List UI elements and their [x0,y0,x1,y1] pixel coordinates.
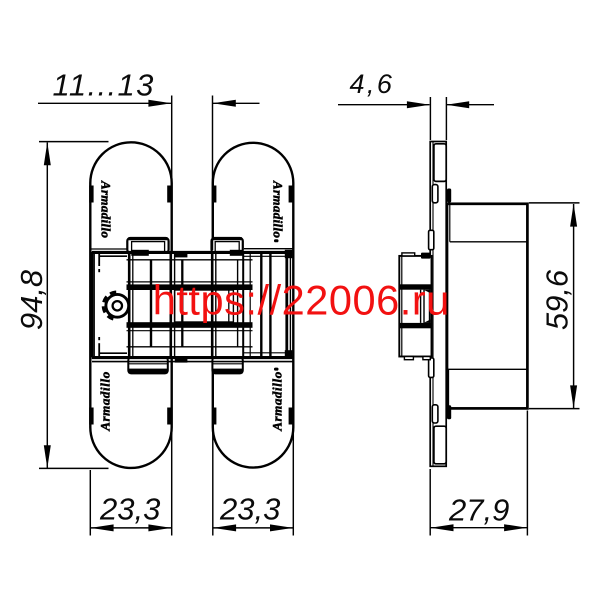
plate edge tab below knuckle [429,358,434,377]
knuckle inner left line [401,256,403,357]
dimension 23,3 left [90,430,171,536]
block inner top vertical [449,204,451,242]
right cup screw dot top [274,239,279,242]
knuckle upper bar [399,284,431,289]
right bracket top inner line [243,255,289,257]
knuckle foot left [404,357,413,360]
hinge body background [93,252,292,357]
knuckle body [399,256,431,357]
lower link bar [127,322,253,328]
body left edge outer [91,252,93,357]
plate upper-right black tick [447,189,451,203]
pivot screw inner circle [113,301,122,310]
dimension 11...13 [38,96,260,251]
plate lower lug [434,426,446,464]
lobe clip notch left-lobe right bottom [167,408,171,425]
svg-text:27,9: 27,9 [448,493,509,528]
knuckle channel right edge [429,290,431,323]
left bracket top inner line [99,255,128,257]
body top edge [92,251,289,254]
left bracket dashed edge line [98,253,100,357]
knuckle foot right [423,357,430,360]
center-right column thick [211,252,214,357]
pivot screw outer circle [106,294,129,317]
lobe clip notch right-lobe left top [212,186,216,203]
lobe clip notch right-lobe left bottom [212,408,216,425]
plate upper-left small tab [432,185,438,203]
top-left ear tab [127,238,168,253]
svg-text:23,3: 23,3 [99,492,160,527]
body left edge inner [93,252,95,357]
right bracket mid column [269,252,271,357]
slider column line c [237,260,239,347]
right bracket bottom inner line [243,352,289,354]
lobe clip notch left-lobe right top [167,186,171,203]
knuckle mid vertical b [423,290,425,323]
plate upper lug [434,144,446,182]
right lobe outline (front view) [213,143,293,468]
top-left ear black foot [131,250,149,256]
side view mounting plate [430,142,446,467]
svg-text:23,3: 23,3 [219,492,280,527]
bottom-right ear tab [212,357,242,373]
lobe clip notch right-lobe right bottom [289,408,293,425]
svg-text:https://22006.ru: https://22006.ru [153,276,450,323]
svg-text:Armadillo: Armadillo [270,180,285,239]
plate lower-right black tick [447,405,451,419]
block inner top line [450,241,527,243]
left bracket right edge thin [132,252,134,357]
center-left column thick [170,252,173,357]
center-left column thin [174,252,176,357]
center top tab [175,253,188,258]
side view block (cup) [447,204,527,409]
body bottom outer line [92,361,293,363]
knuckle mid vertical a [420,290,422,323]
body bottom-right corner blob [285,350,293,358]
svg-text:94,8: 94,8 [14,269,49,330]
left lobe outline (front view) [90,142,171,468]
body bottom edge [92,356,293,359]
svg-text:4,6: 4,6 [350,69,395,99]
slider column line b [181,260,183,347]
dimension 94,8 [39,142,109,469]
right cup screw dot bottom [274,368,279,371]
body cup line top right [244,248,293,250]
knuckle top bump [402,253,415,256]
top-right ear tab [212,238,243,253]
lobe clip notch left-lobe left top [89,186,93,203]
body cup line top left [90,248,127,250]
svg-text:11...13: 11...13 [53,68,155,103]
knuckle top black tick [421,253,431,259]
center-right column thin [215,252,217,357]
body inner bottom line [127,346,253,348]
plate edge tab above knuckle [429,230,434,249]
right bracket inner thick column [285,252,288,358]
body top-right corner blob [285,250,293,258]
middle link box inner edge [228,290,230,322]
plate lower-left small tab [432,405,438,423]
lobe clip notch right-lobe right top [289,186,293,203]
link bar companion line upper [127,281,253,283]
pivot knurl ticks [103,292,116,320]
svg-text:Armadillo: Armadillo [99,180,114,239]
dimension 27,9 [430,411,527,536]
middle link box [175,290,234,322]
right bracket inner line [260,252,262,357]
dimension 23,3 right [213,430,293,536]
svg-text:Armadillo: Armadillo [98,371,113,432]
top-right ear black foot [230,250,243,256]
lobe clip notch left-lobe left bottom [89,408,93,425]
right bracket left inner [249,252,251,357]
slider column line a [150,260,152,347]
left bracket bottom inner line [99,352,128,354]
dimension 59,6 [529,203,580,409]
body inner top line [127,259,253,261]
svg-text:59,6: 59,6 [540,269,575,330]
svg-text:Armadillo: Armadillo [269,371,284,432]
right bracket right edge [289,252,291,357]
knuckle channel bottom wedge [424,319,431,323]
link bar companion line lower [127,330,253,332]
knuckle channel top wedge [424,290,431,294]
bottom-left ear tab [128,357,168,373]
upper link bar [127,284,253,290]
center bottom tab [175,358,188,362]
block inner bottom contour [449,369,527,407]
right bracket left edge [242,252,244,357]
knuckle lower bar [399,323,431,328]
left bracket right edge thick [128,252,131,357]
plate inner left line [432,142,434,467]
dimension 4,6 [338,97,494,140]
